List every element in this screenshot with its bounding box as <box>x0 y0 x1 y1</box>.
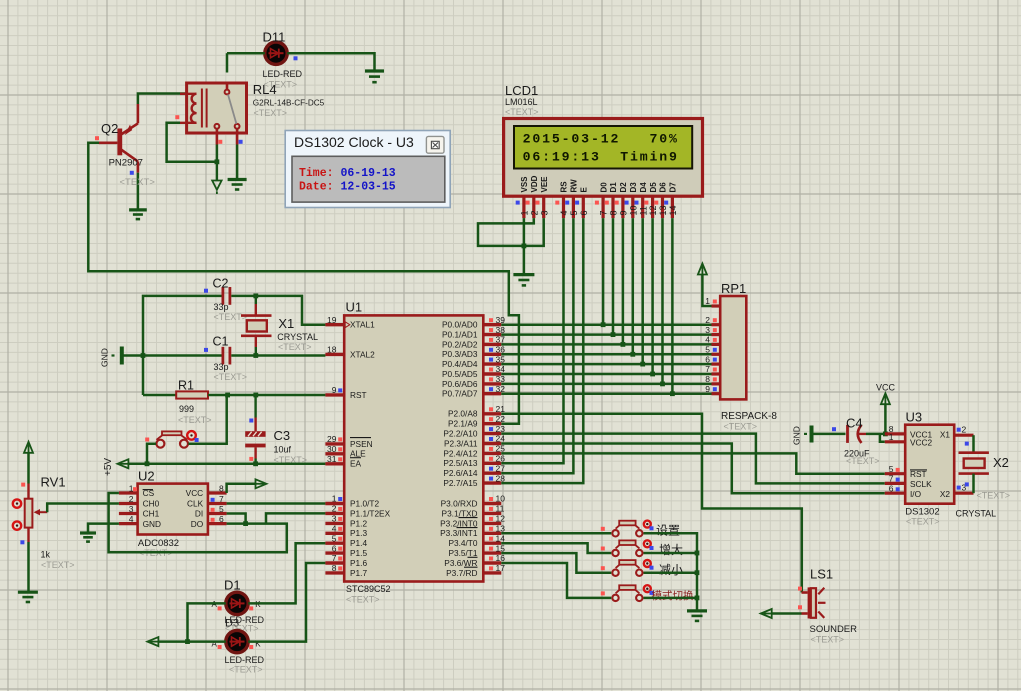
ground under Q2 <box>129 208 147 211</box>
svg-text:VDD: VDD <box>530 175 539 192</box>
svg-text:3: 3 <box>332 514 337 524</box>
MCU U1 STC89C52 <box>344 315 483 581</box>
node junction under relay <box>215 159 220 164</box>
button SW3 (decrease) <box>612 570 618 576</box>
svg-text:VCC2: VCC2 <box>910 438 933 448</box>
LED D3 (lower) <box>226 630 248 652</box>
svg-text:1k: 1k <box>41 550 51 560</box>
svg-text:7: 7 <box>705 364 710 374</box>
svg-text:6: 6 <box>332 543 337 553</box>
svg-text:3: 3 <box>705 325 710 335</box>
svg-text:<TEXT>: <TEXT> <box>254 108 288 118</box>
wire button left to +5V rail <box>147 444 156 464</box>
svg-text:4: 4 <box>559 210 569 215</box>
wire C1 right to XTAL2 <box>231 354 325 357</box>
pin 13 P3.3/INT1 <box>483 532 501 535</box>
pin 1 P1.0/T2 <box>325 502 344 505</box>
wire P0.3 to RP1 <box>501 353 711 356</box>
wire U2 DI stub down <box>227 514 246 524</box>
svg-text:<TEXT>: <TEXT> <box>906 517 940 527</box>
capacitor C2 <box>221 287 224 305</box>
wire LCD D2 to P0.2 <box>622 218 625 344</box>
svg-text:G2RL-14B-CF-DC5: G2RL-14B-CF-DC5 <box>253 99 325 108</box>
node C2/X1 <box>253 294 258 299</box>
svg-text:SOUNDER: SOUNDER <box>810 624 858 635</box>
svg-text:2: 2 <box>529 210 539 215</box>
wire C2 left / down to R1 row <box>143 296 222 395</box>
svg-text:X1: X1 <box>940 429 951 439</box>
svg-text:<TEXT>: <TEXT> <box>724 422 758 432</box>
svg-text:24: 24 <box>496 434 506 444</box>
svg-text:10: 10 <box>496 494 506 504</box>
svg-text:P0.6/AD6: P0.6/AD6 <box>442 379 478 389</box>
RP1 pin 3 <box>712 333 721 336</box>
pin 35 P0.4/AD4 <box>483 362 501 365</box>
pin 18 XTAL2 <box>325 353 344 356</box>
pin 39 P0.0/AD0 <box>483 323 501 326</box>
svg-text:P0.4/AD4: P0.4/AD4 <box>442 359 478 369</box>
svg-text:8: 8 <box>219 484 224 494</box>
node VSS/VEE <box>522 244 527 249</box>
pin 11 P3.1/TXD <box>483 512 501 515</box>
svg-text:8: 8 <box>705 374 710 384</box>
wire RV1 bottom to ground <box>27 542 30 592</box>
svg-text:7: 7 <box>219 494 224 504</box>
svg-text:P0.2/AD2: P0.2/AD2 <box>442 339 478 349</box>
svg-text:<TEXT>: <TEXT> <box>229 665 263 675</box>
svg-text:VSS: VSS <box>520 176 529 193</box>
svg-text:+5V: +5V <box>103 458 114 476</box>
svg-text:4: 4 <box>332 524 337 534</box>
relay RL4 <box>187 83 247 133</box>
svg-text:C2: C2 <box>213 277 229 291</box>
wire D3 cathode to P1.6 <box>248 563 325 642</box>
svg-text:X2: X2 <box>993 455 1009 470</box>
svg-text:CRYSTAL: CRYSTAL <box>277 332 318 342</box>
sounder LS1 <box>798 587 802 591</box>
wire +5V rail to EA <box>129 463 326 466</box>
wire P0.7 to RP1 <box>501 392 711 395</box>
svg-text:P2.6/A14: P2.6/A14 <box>443 468 478 478</box>
pin 28 P2.7/A15 <box>483 481 501 484</box>
wire LCD D4 to P0.4 <box>641 218 644 364</box>
wire P0.1 to RP1 <box>501 333 711 336</box>
svg-text:<TEXT>: <TEXT> <box>214 312 248 322</box>
ground under relay contact <box>228 178 247 181</box>
svg-text:D1: D1 <box>224 578 241 593</box>
wire P2.2 to U3 SCLK <box>501 434 885 484</box>
transistor Q2 <box>117 129 122 156</box>
svg-text:D7: D7 <box>669 182 678 193</box>
svg-text:PSEN: PSEN <box>350 439 373 449</box>
U3 pin 5 <box>885 472 905 475</box>
wire LS1 to output arrow <box>772 612 802 615</box>
U3 pin 6 <box>885 492 905 495</box>
wire P0.6 to RP1 <box>501 383 711 386</box>
svg-text:P1.2: P1.2 <box>350 518 367 528</box>
svg-text:LED-RED: LED-RED <box>263 69 303 79</box>
svg-text:GND: GND <box>143 519 161 529</box>
svg-text:D3: D3 <box>629 182 638 193</box>
svg-text:R1: R1 <box>178 379 194 393</box>
pin 31 EA <box>325 462 344 465</box>
svg-text:21: 21 <box>496 404 506 414</box>
node RST/button <box>225 393 230 398</box>
svg-text:26: 26 <box>496 454 506 464</box>
svg-text:RP1: RP1 <box>721 281 746 296</box>
RTC U3 DS1302 <box>905 425 954 504</box>
svg-text:DS1302 Clock - U3: DS1302 Clock - U3 <box>294 134 414 150</box>
popup window DS1302 Clock - U3 <box>285 131 450 208</box>
svg-text:P0.5/AD5: P0.5/AD5 <box>442 369 478 379</box>
svg-text:增大: 增大 <box>659 543 683 557</box>
svg-text:<TEXT>: <TEXT> <box>278 342 312 352</box>
wire LCD RS to P2.5 <box>501 218 563 463</box>
svg-text:D1: D1 <box>609 182 618 193</box>
svg-text:7: 7 <box>889 474 894 484</box>
svg-text:RW: RW <box>570 179 579 193</box>
svg-text:ADC0832: ADC0832 <box>138 538 179 549</box>
wire LCD RW to P2.6 <box>501 218 573 473</box>
RP1 pin 1 <box>712 304 721 307</box>
node rail/C3 <box>253 461 258 466</box>
svg-text:LCD1: LCD1 <box>505 83 538 98</box>
svg-text:P0.1/AD1: P0.1/AD1 <box>442 330 478 340</box>
svg-text:P3.7/RD: P3.7/RD <box>446 568 477 578</box>
svg-text:6: 6 <box>889 483 894 493</box>
svg-text:CLK: CLK <box>187 499 204 509</box>
pin 37 P0.2/AD2 <box>483 343 501 346</box>
RP1 pin 6 <box>712 363 721 366</box>
svg-text:36: 36 <box>496 345 506 355</box>
button SW2 (increase) <box>612 550 618 556</box>
RP1 pin 5 <box>712 353 721 356</box>
svg-text:10uf: 10uf <box>274 445 292 455</box>
svg-text:2: 2 <box>332 504 337 514</box>
wire P0.2 to RP1 <box>501 343 711 346</box>
wire LCD VEE <box>524 218 544 246</box>
svg-text:39: 39 <box>496 315 506 325</box>
svg-text:13: 13 <box>496 524 506 534</box>
LED D11 <box>265 42 287 64</box>
svg-text:D0: D0 <box>599 182 608 193</box>
svg-text:P1.6: P1.6 <box>350 558 367 568</box>
svg-text:1: 1 <box>520 210 530 215</box>
node RST/C3 <box>253 393 258 398</box>
svg-text:D5: D5 <box>649 182 658 193</box>
svg-text:P3.5/T1: P3.5/T1 <box>448 548 477 558</box>
svg-text:9: 9 <box>705 384 710 394</box>
wire DI row to U1 P1.1 <box>266 513 325 523</box>
svg-text:CH0: CH0 <box>143 499 160 509</box>
svg-text:P2.5/A13: P2.5/A13 <box>443 458 478 468</box>
svg-text:D6: D6 <box>659 182 668 193</box>
wire P3.6 to SW4 <box>501 563 611 598</box>
wire R1 to RST <box>208 394 325 397</box>
svg-text:P3.6/WR: P3.6/WR <box>444 558 477 568</box>
svg-text:4: 4 <box>705 335 710 345</box>
svg-text:C1: C1 <box>213 335 229 349</box>
RP1 pin 7 <box>712 372 721 375</box>
svg-text:12: 12 <box>648 205 658 215</box>
wire LCD VDD loop <box>478 218 534 246</box>
svg-text:LS1: LS1 <box>810 567 833 582</box>
button SW4 (mode switch) <box>612 595 618 601</box>
svg-text:C3: C3 <box>274 428 291 443</box>
svg-text:11: 11 <box>496 504 505 514</box>
node GND/C2 drop <box>141 353 146 358</box>
wire buttons common to ground <box>644 533 698 611</box>
pin 23 P2.2/A10 <box>483 432 501 435</box>
svg-text:P2.1/A9: P2.1/A9 <box>448 419 478 429</box>
svg-text:<TEXT>: <TEXT> <box>977 491 1011 501</box>
pin 26 P2.5/A13 <box>483 462 501 465</box>
ground under U2 <box>80 531 96 534</box>
svg-text:<TEXT>: <TEXT> <box>178 415 212 425</box>
pin 22 P2.1/A9 <box>483 422 501 425</box>
svg-text:28: 28 <box>496 473 506 483</box>
pin 21 P2.0/A8 <box>483 412 501 415</box>
LCD1 LM016L <box>504 119 703 197</box>
wire LCD D0 to P0.0 <box>602 218 605 325</box>
svg-text:P3.2/INT0: P3.2/INT0 <box>440 518 478 528</box>
svg-text:14: 14 <box>668 205 678 215</box>
node anode junction <box>185 639 190 644</box>
svg-text:RST: RST <box>910 469 927 479</box>
svg-text:999: 999 <box>179 404 194 414</box>
svg-text:P1.0/T2: P1.0/T2 <box>350 498 379 508</box>
svg-text:CRYSTAL: CRYSTAL <box>956 509 997 519</box>
svg-text:<TEXT>: <TEXT> <box>811 635 845 645</box>
svg-text:CH1: CH1 <box>143 509 160 519</box>
svg-text:VCC: VCC <box>186 488 204 498</box>
pin 36 P0.3/AD3 <box>483 353 501 356</box>
svg-text:P0.3/AD3: P0.3/AD3 <box>442 349 478 359</box>
resistor pack RP1 RESPACK-8 <box>720 296 746 399</box>
svg-text:6: 6 <box>219 514 224 524</box>
svg-text:减小: 减小 <box>659 563 683 577</box>
pin 30 ALE <box>325 452 344 455</box>
svg-text:5: 5 <box>889 464 894 474</box>
svg-text:模式切换: 模式切换 <box>652 589 694 602</box>
svg-text:06:19:13 Timin9: 06:19:13 Timin9 <box>523 150 679 165</box>
wire P0.0 to RP1 <box>501 323 711 326</box>
capacitor C4 220uF <box>814 433 846 436</box>
svg-text:XTAL1: XTAL1 <box>350 320 375 330</box>
wire P0.4 to RP1 <box>501 363 711 366</box>
svg-text:9: 9 <box>332 385 337 395</box>
wire U2 VCC to power arrow <box>227 484 256 493</box>
wire LCD E to P2.7 <box>501 218 583 483</box>
svg-text:D2: D2 <box>619 182 628 193</box>
pin 4 P1.3 <box>325 532 344 535</box>
ground arrow terminal under relay <box>216 162 218 180</box>
U3 pin 7 <box>885 482 905 485</box>
node C1/X1 <box>253 353 258 358</box>
button SW1 (set) <box>612 530 618 536</box>
svg-text:9: 9 <box>619 210 629 215</box>
pin 24 P2.3/A11 <box>483 442 501 445</box>
svg-text:DO: DO <box>191 519 204 529</box>
svg-text:31: 31 <box>327 454 337 464</box>
svg-text:15: 15 <box>496 543 506 553</box>
svg-text:I/O: I/O <box>910 489 922 499</box>
pin 6 P1.5 <box>325 551 344 554</box>
wire relay to D11 anode <box>226 53 229 72</box>
wire LCD D3 to P0.3 <box>632 218 635 354</box>
wire RL4 common to junction <box>216 145 219 162</box>
svg-text:SCLK: SCLK <box>910 479 932 489</box>
U3 pin 3 X2 <box>954 492 973 495</box>
svg-text:2015-03-12 70%: 2015-03-12 70% <box>523 131 679 146</box>
wire D11 right to ground <box>287 53 374 71</box>
svg-text:11: 11 <box>638 206 648 215</box>
svg-text:35: 35 <box>496 354 506 364</box>
svg-text:Time:: Time: <box>299 167 334 180</box>
svg-text:5: 5 <box>219 504 224 514</box>
wire RL4 coil- loop <box>167 123 217 162</box>
svg-text:5: 5 <box>332 533 337 543</box>
wire P0.5 to RP1 <box>501 373 711 376</box>
svg-text:23: 23 <box>496 424 506 434</box>
svg-text:VCC: VCC <box>876 383 896 393</box>
svg-text:30: 30 <box>327 444 337 454</box>
pin 16 P3.6/WR <box>483 561 501 564</box>
svg-text:D11: D11 <box>263 30 286 45</box>
svg-text:P3.1/TXD: P3.1/TXD <box>442 508 478 518</box>
svg-text:P1.4: P1.4 <box>350 538 367 548</box>
svg-text:2: 2 <box>129 494 134 504</box>
svg-text:1: 1 <box>705 296 710 306</box>
ground under RV1 <box>18 591 38 594</box>
svg-text:D4: D4 <box>639 182 648 193</box>
pin 33 P0.6/AD6 <box>483 382 501 385</box>
svg-text:16: 16 <box>496 553 506 563</box>
pin 15 P3.5/T1 <box>483 551 501 554</box>
svg-text:GND: GND <box>792 426 802 445</box>
svg-text:P0.7/AD7: P0.7/AD7 <box>442 389 478 399</box>
pin 9 RST <box>325 393 344 396</box>
svg-text:DI: DI <box>195 509 203 519</box>
node rail/button <box>145 461 150 466</box>
pin 5 P1.4 <box>325 542 344 545</box>
svg-text:RESPACK-8: RESPACK-8 <box>721 411 777 422</box>
wire LCD D6 to P0.6 <box>661 218 664 384</box>
svg-text:<TEXT>: <TEXT> <box>120 177 156 188</box>
wire Q2 base net (to P2.1/A9) <box>88 143 519 424</box>
svg-text:VEE: VEE <box>540 176 549 193</box>
svg-text:U2: U2 <box>138 469 155 484</box>
resistor R1 <box>143 394 176 397</box>
svg-text:27: 27 <box>496 463 506 473</box>
IC U2 ADC0832 <box>138 484 208 535</box>
svg-text:P1.7: P1.7 <box>350 568 367 578</box>
svg-text:<TEXT>: <TEXT> <box>846 456 880 466</box>
svg-text:19: 19 <box>327 315 337 325</box>
svg-text:P2.4/A12: P2.4/A12 <box>443 448 478 458</box>
RP1 pin 9 <box>712 392 721 395</box>
U3 pin 8 <box>885 432 905 435</box>
pin 29 PSEN <box>325 442 344 445</box>
svg-text:XTAL2: XTAL2 <box>350 349 375 359</box>
svg-text:29: 29 <box>327 434 337 444</box>
wire RV1 top to power arrow <box>27 453 30 484</box>
pin 17 P3.7/RD <box>483 571 501 574</box>
wire Q2 collector to ground <box>137 173 140 210</box>
crystal X2 <box>972 435 975 453</box>
svg-text:2: 2 <box>962 425 967 435</box>
svg-text:E: E <box>580 187 589 193</box>
svg-text:12-03-15: 12-03-15 <box>341 181 396 194</box>
svg-text:P2.2/A10: P2.2/A10 <box>443 429 478 439</box>
pin 8 P1.7 <box>325 571 344 574</box>
svg-text:P1.1/T2EX: P1.1/T2EX <box>350 508 391 518</box>
svg-text:17: 17 <box>496 563 506 573</box>
U3 pin 1 <box>885 440 905 443</box>
wire U2 GND to ground <box>88 524 119 533</box>
pin 34 P0.5/AD5 <box>483 372 501 375</box>
wire P2.4 to U3 RST <box>501 453 885 473</box>
svg-text:18: 18 <box>327 345 337 355</box>
ground under LCD <box>513 273 534 276</box>
wire RP1 pin1 to power <box>702 275 711 306</box>
wire RV1 wiper to U2 CH0 <box>47 504 119 513</box>
wire U2 CS loop to DO row <box>109 493 287 552</box>
svg-text:P1.3: P1.3 <box>350 528 367 538</box>
svg-text:X1: X1 <box>278 316 294 331</box>
pin 3 P1.2 <box>325 522 344 525</box>
svg-text:<TEXT>: <TEXT> <box>41 560 75 570</box>
U3 pin 2 X1 <box>954 434 973 437</box>
wire D11 left <box>227 52 265 55</box>
svg-text:STC89C52: STC89C52 <box>346 584 391 594</box>
wire U2 CLK to U1 P1.0 <box>227 502 326 505</box>
wire VCC2 branch <box>880 434 885 442</box>
svg-text:5: 5 <box>569 210 579 215</box>
pin 19 XTAL1 <box>325 323 344 326</box>
svg-text:2: 2 <box>705 315 710 325</box>
svg-text:GND: GND <box>100 348 110 367</box>
svg-text:33p: 33p <box>214 362 229 372</box>
svg-text:33p: 33p <box>214 302 229 312</box>
svg-text:8: 8 <box>332 563 337 573</box>
wire D1 anodes to output arrow <box>188 603 226 641</box>
pin 14 P3.4/T0 <box>483 542 501 545</box>
svg-text:<TEXT>: <TEXT> <box>214 372 248 382</box>
svg-text:P3.3/INT1: P3.3/INT1 <box>440 528 478 538</box>
RP1 pin 4 <box>712 343 721 346</box>
svg-text:12: 12 <box>496 514 506 524</box>
ground right of D11 <box>365 69 384 72</box>
svg-text:37: 37 <box>496 335 506 345</box>
pin 32 P0.7/AD7 <box>483 392 501 395</box>
svg-text:P3.0/RXD: P3.0/RXD <box>441 498 478 508</box>
svg-text:1: 1 <box>332 494 337 504</box>
svg-text:U1: U1 <box>346 300 363 315</box>
svg-text:PN2907: PN2907 <box>109 158 143 169</box>
svg-text:3: 3 <box>129 504 134 514</box>
svg-text:38: 38 <box>496 325 506 335</box>
svg-text:6: 6 <box>705 354 710 364</box>
pin 7 P1.6 <box>325 561 344 564</box>
svg-text:X2: X2 <box>940 489 951 499</box>
capacitor C3 <box>245 431 265 437</box>
svg-text:LM016L: LM016L <box>505 97 538 107</box>
wire D1 cathode to P1.4 <box>248 543 325 603</box>
crystal X1 <box>241 314 272 317</box>
svg-text:10: 10 <box>628 205 638 215</box>
svg-text:Q2: Q2 <box>101 121 118 136</box>
